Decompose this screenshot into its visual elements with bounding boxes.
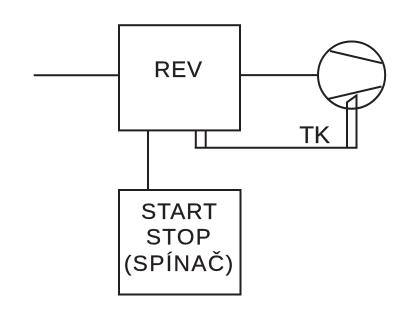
- wire TK return (bottom horizontal): [195, 147, 358, 149]
- svg-text:REV: REV: [154, 57, 203, 82]
- wire TK drop 2 from REV: [205, 130, 207, 148]
- wire REV to switch: [147, 130, 149, 190]
- svg-text:(SPÍNAČ): (SPÍNAČ): [124, 251, 235, 276]
- svg-text:START: START: [141, 199, 218, 224]
- motor winding chord (bottom): [327, 87, 382, 100]
- svg-text:TK: TK: [299, 122, 330, 149]
- wire TK drop 1 from REV: [195, 130, 197, 148]
- block START/STOP switch S1: [119, 190, 241, 295]
- svg-text:STOP: STOP: [146, 224, 212, 249]
- block REV (reversing control unit U1): [119, 25, 240, 130]
- motor M1 (circle): [318, 42, 385, 109]
- wire REV to motor: [240, 74, 319, 76]
- motor winding chord (top): [330, 51, 382, 63]
- thermal contact TK leads into motor: [347, 95, 357, 147]
- wire supply input (left): [34, 74, 119, 76]
